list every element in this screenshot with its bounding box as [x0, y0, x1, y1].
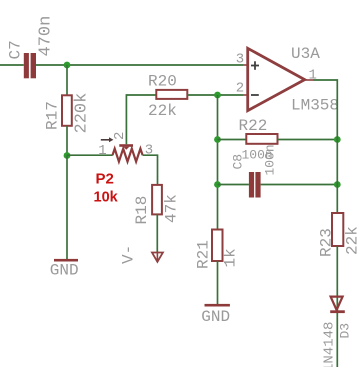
diode D3 triangle	[331, 297, 343, 310]
label P2 name (red)	[96, 171, 114, 188]
label C8 value 100n horizontal	[242, 148, 273, 163]
capacitor C7	[24, 53, 36, 78]
svg-text:U3A: U3A	[291, 45, 320, 63]
wire output net to node D and down to R23	[313, 80, 337, 213]
wire R18 bottom to V-	[156, 214, 158, 260]
svg-text:P2: P2	[96, 171, 114, 188]
label U3A value LM358	[291, 97, 339, 115]
svg-text:R18: R18	[133, 196, 151, 225]
svg-text:GND: GND	[50, 262, 79, 280]
pin stub op-amp pin3	[243, 64, 247, 66]
svg-text:1N4148: 1N4148	[322, 322, 338, 367]
label C8 name	[231, 154, 246, 170]
potentiometer P2 zigzag	[113, 149, 143, 162]
label op-amp pin 3	[236, 52, 244, 68]
wire net IN: left edge to C7 left plate	[0, 64, 24, 66]
resistor R20	[156, 90, 187, 99]
op-amp U3A triangle	[248, 48, 305, 110]
wire C8 left	[218, 184, 249, 186]
wire R20 right to op-amp pin2	[187, 94, 243, 96]
pin stub op-amp pin2	[243, 94, 247, 96]
label V-	[120, 245, 138, 264]
capacitor C8	[249, 172, 261, 198]
svg-text:3: 3	[236, 52, 244, 68]
junction node B	[64, 152, 71, 159]
junction node E C8/R23	[334, 181, 341, 188]
svg-text:100n: 100n	[263, 144, 278, 175]
label R18 name	[133, 196, 151, 225]
svg-text:1: 1	[98, 143, 106, 159]
label P2 pin 1	[98, 143, 106, 159]
ground GND1 bar	[54, 259, 78, 262]
label R20 value 22k	[148, 102, 177, 120]
label R17 name	[44, 101, 62, 130]
label op-amp pin 1	[309, 67, 317, 83]
resistor R17	[62, 95, 72, 126]
junction node C/C8 left	[214, 181, 221, 188]
label R17 value 220k	[73, 93, 92, 134]
label op-amp pin 2	[236, 81, 244, 97]
label P2 pin 3	[145, 142, 153, 158]
label R23 name	[318, 228, 336, 257]
wire P2 pin3 to R18	[143, 155, 158, 185]
label C7 name	[7, 40, 25, 59]
junction node D R22/output	[334, 136, 341, 143]
junction node C/R22 left	[214, 136, 221, 143]
label GND1	[50, 262, 79, 280]
resistor R22	[246, 134, 277, 144]
label R20 name	[148, 72, 177, 90]
wire R22 right to node D	[278, 139, 338, 141]
junction node C at pin2	[214, 92, 221, 99]
svg-text:220k: 220k	[73, 93, 92, 134]
supply V- arrow	[152, 253, 163, 262]
label D3 name	[338, 323, 353, 339]
wire node B to P2 pin1	[67, 154, 113, 156]
wire R22 left	[218, 139, 247, 141]
svg-text:R20: R20	[148, 72, 177, 90]
label C8 value 100n rotated	[263, 144, 278, 175]
label R18 value 47k	[163, 194, 181, 223]
svg-text:R21: R21	[195, 240, 213, 269]
wire node B to GND	[66, 156, 68, 260]
resistor R21	[212, 230, 223, 262]
label P2 value 10k (red)	[94, 190, 119, 206]
op-amp plus input mark	[251, 61, 259, 70]
pin stub op-amp output	[305, 79, 313, 81]
wire R21 bottom to GND2	[217, 261, 219, 304]
svg-text:C7: C7	[7, 40, 25, 59]
label R21 value 1k	[222, 248, 240, 267]
wire P2 wiper up and to R20 left	[126, 95, 156, 144]
label P2 pin 2	[112, 132, 128, 140]
wire net A: C7 right plate to op-amp pin3	[36, 64, 243, 66]
svg-text:GND: GND	[201, 308, 230, 326]
label R21 name	[195, 240, 213, 269]
svg-text:2: 2	[236, 81, 244, 97]
wire R23 bottom to D3	[336, 246, 338, 367]
resistor R18	[152, 185, 162, 215]
svg-text:22k: 22k	[344, 226, 360, 255]
ground GND2 bar	[205, 304, 230, 307]
wire node C vertical down to R21	[217, 95, 219, 230]
potentiometer P2 adjust arrow	[101, 137, 114, 142]
svg-text:470n: 470n	[37, 16, 56, 57]
svg-text:R17: R17	[44, 101, 62, 130]
label U3A name	[291, 45, 320, 63]
junction node A at C7/R17	[64, 62, 71, 69]
wire node A down to R17	[66, 65, 68, 95]
svg-text:47k: 47k	[163, 194, 181, 223]
svg-text:22k: 22k	[148, 102, 177, 120]
resistor R23	[332, 213, 343, 246]
svg-text:1: 1	[309, 67, 317, 83]
svg-text:R22: R22	[239, 117, 268, 135]
wire C8 right to node E	[261, 184, 338, 186]
potentiometer P2 wiper bar	[119, 144, 133, 150]
wire R17 bottom to node B	[66, 126, 68, 156]
svg-text:10k: 10k	[94, 190, 119, 206]
svg-text:1k: 1k	[222, 248, 240, 267]
svg-text:V-: V-	[120, 245, 138, 264]
label R23 value 22k	[344, 226, 360, 255]
svg-text:LM358: LM358	[291, 97, 339, 115]
label C7 value 470n	[37, 16, 56, 57]
label D3 value 1N4148	[322, 322, 338, 367]
diode D3 cathode bar	[330, 310, 345, 313]
svg-text:D3: D3	[338, 323, 353, 339]
label GND2	[201, 308, 230, 326]
svg-text:R23: R23	[318, 228, 336, 257]
op-amp minus input mark	[251, 94, 259, 96]
label R22 name	[239, 117, 268, 135]
